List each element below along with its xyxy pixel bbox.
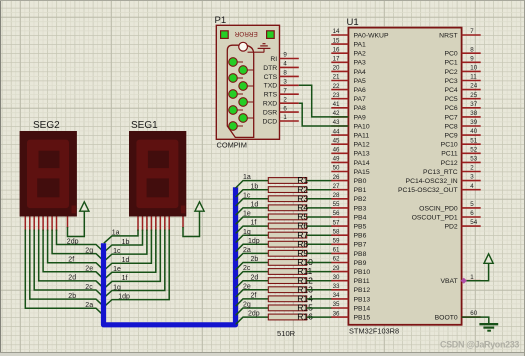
svg-text:COMPIM: COMPIM xyxy=(217,140,247,149)
svg-text:58: 58 xyxy=(333,228,340,235)
svg-text:23: 23 xyxy=(333,92,340,99)
U1 pin 15 PA1 xyxy=(331,37,366,48)
svg-text:1a: 1a xyxy=(243,174,251,181)
U1 pin 58 PB6 xyxy=(331,228,366,239)
svg-text:PC15-OSC32_OUT: PC15-OSC32_OUT xyxy=(398,187,458,194)
wire R4 to U1 PB3 pin 55 xyxy=(307,207,332,209)
svg-text:PB4: PB4 xyxy=(354,214,367,221)
wire SEG2 common to power arrow xyxy=(68,211,85,236)
svg-text:1a: 1a xyxy=(112,230,120,237)
resistor R5 xyxy=(268,212,308,222)
svg-text:28: 28 xyxy=(333,192,340,199)
wire net 2g : bus to R15 xyxy=(236,302,269,316)
svg-text:24: 24 xyxy=(470,83,477,90)
U1 pin 30 PB11 xyxy=(331,274,370,285)
wire net 2d : bus to R12 xyxy=(236,274,269,288)
svg-text:2d: 2d xyxy=(68,275,76,282)
svg-text:PA7: PA7 xyxy=(354,96,367,103)
wire R10 to U1 PB9 pin 62 xyxy=(307,262,332,264)
resistor R12 xyxy=(268,275,313,285)
svg-text:42: 42 xyxy=(333,110,340,117)
svg-text:38: 38 xyxy=(470,110,477,117)
svg-text:PA9: PA9 xyxy=(354,114,367,121)
svg-text:U1: U1 xyxy=(347,17,359,28)
svg-text:3: 3 xyxy=(283,79,287,86)
svg-text:PC8: PC8 xyxy=(444,123,457,130)
U1 pin 41 PA8 xyxy=(331,101,366,112)
svg-text:1g: 1g xyxy=(243,229,251,236)
svg-text:11: 11 xyxy=(470,74,477,81)
svg-text:30: 30 xyxy=(333,274,340,281)
svg-text:29: 29 xyxy=(333,265,340,272)
svg-text:PB11: PB11 xyxy=(354,278,370,285)
svg-text:PC5: PC5 xyxy=(444,96,457,103)
wire R2 to U1 PB1 pin 27 xyxy=(307,189,332,191)
svg-text:6: 6 xyxy=(470,210,474,217)
power arrow (SEG2 common) xyxy=(80,202,89,211)
svg-text:41: 41 xyxy=(333,101,340,108)
svg-text:1f: 1f xyxy=(122,275,128,282)
svg-text:2c: 2c xyxy=(85,284,93,291)
svg-text:8: 8 xyxy=(470,46,474,53)
svg-text:2dp: 2dp xyxy=(67,238,79,245)
svg-text:21: 21 xyxy=(333,74,340,81)
resistor R8 xyxy=(268,239,308,249)
junction marker at VBAT pin xyxy=(461,278,467,284)
svg-text:PB6: PB6 xyxy=(354,233,367,240)
svg-text:59: 59 xyxy=(333,238,340,245)
svg-text:DCD: DCD xyxy=(262,118,277,125)
svg-text:1f: 1f xyxy=(251,220,257,227)
svg-text:PC14-OSC32_IN: PC14-OSC32_IN xyxy=(406,178,458,185)
resistor R7 xyxy=(268,230,308,240)
svg-text:RXD: RXD xyxy=(263,101,277,108)
SEG2 decimal point segment xyxy=(72,206,76,214)
svg-text:17: 17 xyxy=(333,56,340,63)
U1 pin 42 PA9 xyxy=(331,110,366,121)
svg-text:PA11: PA11 xyxy=(354,133,370,140)
wire R3 to U1 PB2 pin 28 xyxy=(307,198,332,200)
svg-text:SEG1: SEG1 xyxy=(131,120,158,131)
svg-text:43: 43 xyxy=(333,119,340,126)
svg-text:PA3: PA3 xyxy=(354,60,367,67)
U1 pin 36 PB15 xyxy=(331,310,370,321)
resistor R15 xyxy=(268,303,313,313)
svg-text:3: 3 xyxy=(470,174,474,181)
svg-text:STM32F103R8: STM32F103R8 xyxy=(349,327,399,336)
svg-text:4: 4 xyxy=(470,183,474,190)
ground (BOOT0) xyxy=(479,324,498,331)
svg-text:6: 6 xyxy=(283,105,287,112)
svg-text:OSCOUT_PD1: OSCOUT_PD1 xyxy=(412,214,458,221)
svg-text:SEG2: SEG2 xyxy=(33,120,60,131)
U1 pin 51 PC10 xyxy=(441,137,481,148)
svg-text:27: 27 xyxy=(333,183,340,190)
svg-text:7: 7 xyxy=(470,28,474,35)
wire R16 to U1 PB15 pin 36 xyxy=(307,316,332,318)
U1 pin 26 PB0 xyxy=(331,174,366,185)
wire net 2dp : bus to R16 xyxy=(236,311,269,325)
svg-text:49: 49 xyxy=(333,156,340,163)
bus (blue) : left riser, bottom run, right riser xyxy=(104,187,236,324)
svg-text:2b: 2b xyxy=(251,256,259,263)
svg-text:DSR: DSR xyxy=(263,110,277,117)
wire net 2f : bus to R14 xyxy=(236,293,269,307)
svg-text:PC9: PC9 xyxy=(444,133,457,140)
svg-text:PC3: PC3 xyxy=(444,78,457,85)
svg-text:22: 22 xyxy=(333,83,340,90)
svg-text:PB8: PB8 xyxy=(354,251,367,258)
svg-text:2e: 2e xyxy=(85,266,93,273)
7-segment display SEG2 body xyxy=(20,131,77,217)
wire BOOT0 to ground xyxy=(462,317,489,323)
svg-text:1b: 1b xyxy=(251,183,259,190)
svg-text:PB12: PB12 xyxy=(354,287,371,294)
svg-text:1c: 1c xyxy=(113,248,121,255)
svg-text:2d: 2d xyxy=(251,274,259,281)
P1 shield chassis-ground symbol xyxy=(248,44,271,53)
svg-text:PA4: PA4 xyxy=(354,69,367,76)
svg-text:14: 14 xyxy=(333,28,340,35)
svg-text:20: 20 xyxy=(333,65,340,72)
svg-text:8: 8 xyxy=(283,70,287,77)
svg-text:2e: 2e xyxy=(243,283,251,290)
svg-text:PB3: PB3 xyxy=(354,205,367,212)
wire P1 RXD to U1 PA10 xyxy=(299,103,349,126)
U1 pin 33 PB12 xyxy=(331,283,370,294)
U1 pin 1 VBAT xyxy=(440,274,480,285)
wire net 1b : bus to R2 xyxy=(236,183,269,197)
P1 pin 2 RXD xyxy=(263,96,299,107)
svg-text:35: 35 xyxy=(333,301,340,308)
svg-text:15: 15 xyxy=(333,37,340,44)
wire R8 to U1 PB7 pin 59 xyxy=(307,243,332,245)
power arrow (SEG1 common) xyxy=(195,202,204,211)
svg-text:26: 26 xyxy=(333,174,340,181)
svg-text:PB5: PB5 xyxy=(354,224,367,231)
wire 2e : SEG2 e to bus xyxy=(43,230,103,279)
svg-text:PC0: PC0 xyxy=(444,51,457,58)
svg-text:10: 10 xyxy=(470,65,477,72)
U1 pin 44 PA11 xyxy=(331,128,369,139)
U1 pin 7 NRST xyxy=(439,28,481,39)
U1 pin 22 PA6 xyxy=(331,83,366,94)
svg-text:33: 33 xyxy=(333,283,340,290)
U1 pin 4 PC15-OSC32_OUT xyxy=(398,183,481,194)
svg-text:PA13: PA13 xyxy=(354,151,370,158)
svg-text:37: 37 xyxy=(470,101,477,108)
U1 pin 6 OSCOUT_PD1 xyxy=(412,210,481,221)
svg-text:PD2: PD2 xyxy=(444,224,457,231)
svg-text:PA14: PA14 xyxy=(354,160,370,167)
U1 pin 14 PA0-WKUP xyxy=(331,28,389,39)
svg-text:VBAT: VBAT xyxy=(440,278,457,285)
svg-text:34: 34 xyxy=(333,292,340,299)
wire net 2a : bus to R9 xyxy=(236,247,269,261)
svg-text:61: 61 xyxy=(333,247,340,254)
svg-text:RI: RI xyxy=(270,56,277,63)
resistor R16 xyxy=(268,312,313,322)
svg-text:CSDN @JaRyon233: CSDN @JaRyon233 xyxy=(440,339,519,349)
U1 pin 5 OSCIN_PD0 xyxy=(419,201,481,212)
U1 pin 25 PC5 xyxy=(444,92,480,103)
resistor R11 xyxy=(268,266,312,276)
svg-text:56: 56 xyxy=(333,210,340,217)
svg-text:PC2: PC2 xyxy=(444,69,457,76)
SEG1 pin stubs (red) xyxy=(138,217,183,232)
svg-text:PB0: PB0 xyxy=(354,178,367,185)
svg-text:2f: 2f xyxy=(68,257,74,264)
resistor R14 xyxy=(268,294,313,304)
svg-text:25: 25 xyxy=(470,92,477,99)
svg-text:PC1: PC1 xyxy=(444,60,457,67)
svg-text:2dp: 2dp xyxy=(248,311,260,318)
U1 pin 43 PA10 xyxy=(331,119,370,130)
svg-text:40: 40 xyxy=(470,128,477,135)
wire VBAT to power arrow xyxy=(464,263,489,280)
svg-text:1b: 1b xyxy=(122,239,130,246)
svg-text:39: 39 xyxy=(470,119,477,126)
wire net 1a : bus to R1 xyxy=(236,174,269,188)
P1 pin 9 RI xyxy=(270,52,298,63)
resistor R9 xyxy=(268,248,308,258)
svg-text:P1: P1 xyxy=(215,15,227,26)
P1 pin 6 DSR xyxy=(263,105,299,116)
P1 pin 8 CTS xyxy=(264,70,299,81)
svg-text:2a: 2a xyxy=(243,247,251,254)
svg-text:PB7: PB7 xyxy=(354,242,367,249)
svg-text:51: 51 xyxy=(470,137,477,144)
wire 2a : SEG2 a to bus xyxy=(25,230,103,316)
svg-text:PB15: PB15 xyxy=(354,315,371,322)
svg-text:PC7: PC7 xyxy=(444,114,457,121)
U1 pin 50 PA15 xyxy=(331,165,370,176)
wire net 1dp : bus to R8 xyxy=(236,238,269,252)
svg-text:PB14: PB14 xyxy=(354,305,371,312)
svg-text:53: 53 xyxy=(470,156,477,163)
svg-text:2: 2 xyxy=(470,165,474,172)
svg-text:PA10: PA10 xyxy=(354,123,370,130)
resistor R1 xyxy=(268,175,308,185)
svg-text:510R: 510R xyxy=(277,329,296,338)
U1 pin 11 PC3 xyxy=(444,74,480,85)
U1 pin 53 PC12 xyxy=(441,156,481,167)
U1 pin 60 BOOT0 xyxy=(435,310,481,321)
svg-text:PB2: PB2 xyxy=(354,196,367,203)
svg-text:PA5: PA5 xyxy=(354,78,367,85)
wire net 1d : bus to R4 xyxy=(236,202,269,216)
U1 pin 21 PA5 xyxy=(331,74,366,85)
svg-text:1e: 1e xyxy=(243,211,251,218)
P1 DB9 shield pin (white circle) xyxy=(239,42,248,51)
U1 pin 40 PC9 xyxy=(444,128,480,139)
svg-text:62: 62 xyxy=(333,256,340,263)
svg-text:7: 7 xyxy=(283,87,287,94)
P1 DB9 pin circles (green) xyxy=(229,58,254,131)
P1 pin 3 TXD xyxy=(264,79,299,90)
svg-text:1dp: 1dp xyxy=(118,293,130,300)
U1 pin 10 PC2 xyxy=(444,65,480,76)
wire R9 to U1 PB8 pin 61 xyxy=(307,252,332,254)
svg-text:PA2: PA2 xyxy=(354,51,367,58)
svg-text:2f: 2f xyxy=(251,293,257,300)
svg-text:45: 45 xyxy=(333,137,340,144)
wire P1 TXD to U1 PA9 xyxy=(299,85,349,117)
svg-text:PA8: PA8 xyxy=(354,105,367,112)
svg-text:PA0-WKUP: PA0-WKUP xyxy=(354,32,389,39)
svg-text:BOOT0: BOOT0 xyxy=(435,315,458,322)
svg-text:2g: 2g xyxy=(85,247,93,254)
svg-text:1d: 1d xyxy=(251,202,259,209)
wire net 2e : bus to R13 xyxy=(236,283,269,297)
wire 2g : SEG2 g to bus xyxy=(52,230,103,261)
U1 pin 24 PC4 xyxy=(444,83,480,94)
U1 pin 55 PB3 xyxy=(331,201,366,212)
P1 pin 1 DCD xyxy=(262,114,298,125)
P1 pin 7 RTS xyxy=(264,87,299,98)
svg-text:PC10: PC10 xyxy=(441,142,458,149)
wire 1b : SEG1 b to bus xyxy=(104,230,143,253)
wire SEG1 common to power arrow xyxy=(183,211,200,236)
svg-text:DTR: DTR xyxy=(263,65,277,72)
7-segment display SEG1 body xyxy=(129,131,186,217)
U1 pin 28 PB2 xyxy=(331,192,366,203)
svg-text:1dp: 1dp xyxy=(248,238,260,245)
wire R13 to U1 PB12 pin 33 xyxy=(307,289,332,291)
wire R11 to U1 PB10 pin 29 xyxy=(307,271,332,273)
U1 pin 34 PB13 xyxy=(331,292,370,303)
wire R7 to U1 PB6 pin 58 xyxy=(307,234,332,236)
svg-text:PB9: PB9 xyxy=(354,260,367,267)
U1 pin 29 PB10 xyxy=(331,265,370,276)
P1 pin 4 DTR xyxy=(263,61,299,72)
svg-text:1: 1 xyxy=(283,114,287,121)
svg-text:52: 52 xyxy=(470,146,477,153)
U1 pin 3 PC14-OSC32_IN xyxy=(406,174,481,185)
P1 body xyxy=(216,25,279,139)
resistor R4 xyxy=(268,203,308,213)
U1 pin 23 PA7 xyxy=(331,92,366,103)
svg-text:4: 4 xyxy=(283,61,287,68)
U1 pin 20 PA4 xyxy=(331,65,366,76)
SEG2 lit digit-8 segments xyxy=(27,140,69,209)
wire net 1g : bus to R7 xyxy=(236,229,269,243)
U1 body xyxy=(348,28,461,325)
wire R1 to U1 PB0 pin 26 xyxy=(307,180,332,182)
wire R5 to U1 PB4 pin 56 xyxy=(307,216,332,218)
svg-text:PA1: PA1 xyxy=(354,42,367,49)
U1 pin 17 PA3 xyxy=(331,56,366,67)
wire 1dp : SEG1 dp to bus xyxy=(104,230,169,307)
P1 error LED left xyxy=(221,31,229,39)
svg-text:NRST: NRST xyxy=(439,32,458,39)
svg-text:1c: 1c xyxy=(243,192,251,199)
U1 pin 45 PA12 xyxy=(331,137,370,148)
U1 pin 8 PC0 xyxy=(444,46,480,57)
svg-text:9: 9 xyxy=(470,55,474,62)
wire 1a : SEG1 a to bus xyxy=(104,230,138,244)
svg-text:PA6: PA6 xyxy=(354,87,367,94)
U1 pin 46 PA13 xyxy=(331,147,370,158)
svg-text:PA15: PA15 xyxy=(354,169,370,176)
wire net 1c : bus to R3 xyxy=(236,192,269,206)
svg-text:2a: 2a xyxy=(85,302,93,309)
U1 pin 62 PB9 xyxy=(331,256,366,267)
U1 pin 56 PB4 xyxy=(331,210,366,221)
SEG2 pin stubs (red) xyxy=(25,217,67,232)
svg-text:5: 5 xyxy=(470,201,474,208)
wire 1g : SEG1 g to bus xyxy=(104,230,165,298)
svg-text:1g: 1g xyxy=(113,284,121,291)
svg-text:57: 57 xyxy=(333,219,340,226)
svg-text:PB1: PB1 xyxy=(354,187,367,194)
U1 pin 49 PA14 xyxy=(331,156,370,167)
svg-text:PC13_RTC: PC13_RTC xyxy=(423,169,458,176)
svg-text:PC6: PC6 xyxy=(444,105,457,112)
svg-text:PC12: PC12 xyxy=(441,160,458,167)
wire R14 to U1 PB13 pin 34 xyxy=(307,298,332,300)
U1 pin 57 PB5 xyxy=(331,219,366,230)
svg-text:1e: 1e xyxy=(113,266,121,273)
svg-text:PC11: PC11 xyxy=(441,151,458,158)
svg-text:TXD: TXD xyxy=(264,83,278,90)
svg-text:RTS: RTS xyxy=(264,92,278,99)
wire 2dp : SEG2 dp to bus xyxy=(57,230,104,252)
wire net 1f : bus to R6 xyxy=(236,220,269,234)
wire net 1e : bus to R5 xyxy=(236,211,269,225)
svg-text:PB13: PB13 xyxy=(354,296,371,303)
wire 1d : SEG1 d to bus xyxy=(104,230,152,271)
resistor R10 xyxy=(268,257,313,267)
svg-text:46: 46 xyxy=(333,147,340,154)
svg-text:ERROR: ERROR xyxy=(234,30,257,37)
wire 2b : SEG2 b to bus xyxy=(30,230,104,307)
svg-text:16: 16 xyxy=(333,46,340,53)
wire 2c : SEG2 c to bus xyxy=(34,230,103,298)
SEG1 lit digit-8 segments xyxy=(136,140,178,209)
U1 pin 35 PB14 xyxy=(331,301,370,312)
U1 pin 59 PB7 xyxy=(331,238,366,249)
svg-text:55: 55 xyxy=(333,201,340,208)
svg-text:2: 2 xyxy=(283,96,287,103)
U1 pin 39 PC8 xyxy=(444,119,480,130)
svg-text:60: 60 xyxy=(470,310,477,317)
svg-text:2c: 2c xyxy=(243,265,251,272)
svg-text:2b: 2b xyxy=(68,293,76,300)
wire R15 to U1 PB14 pin 35 xyxy=(307,307,332,309)
wire 1c : SEG1 c to bus xyxy=(104,230,147,262)
svg-text:2g: 2g xyxy=(243,302,251,309)
wire 1f : SEG1 f to bus xyxy=(104,230,161,289)
svg-text:1: 1 xyxy=(470,274,474,281)
wire R6 to U1 PB5 pin 57 xyxy=(307,225,332,227)
resistor R6 xyxy=(268,221,308,231)
P1 error LED right xyxy=(267,31,275,39)
resistor R3 xyxy=(268,193,308,203)
resistor R13 xyxy=(268,284,313,294)
P1 DB9 connector outline xyxy=(227,45,253,137)
wire 2d : SEG2 d to bus xyxy=(39,230,104,288)
power arrow (VBAT) xyxy=(484,254,493,263)
U1 pin 16 PA2 xyxy=(331,46,366,57)
U1 pin 37 PC6 xyxy=(444,101,480,112)
SEG1 decimal point segment xyxy=(181,206,185,214)
U1 pin 9 PC1 xyxy=(444,55,480,66)
wire net 2b : bus to R10 xyxy=(236,256,269,270)
svg-text:CTS: CTS xyxy=(264,74,278,81)
wire 1e : SEG1 e to bus xyxy=(104,230,156,280)
svg-text:54: 54 xyxy=(470,219,477,226)
